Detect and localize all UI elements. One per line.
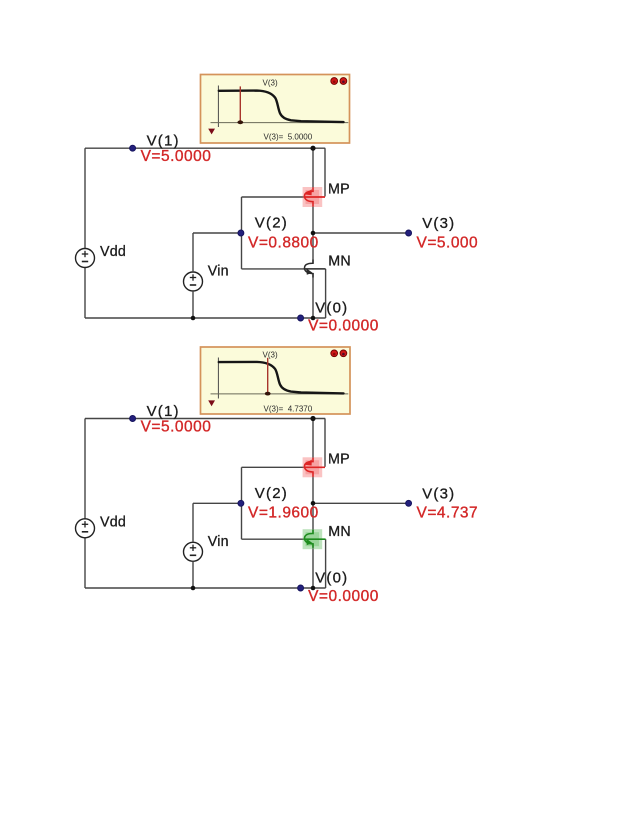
wire Vin to gate bus 1 [193, 232, 242, 234]
scope2 left marker triangle [208, 400, 215, 406]
svg-text:V(3): V(3) [263, 79, 278, 88]
svg-text:V(2): V(2) [255, 485, 288, 502]
node V(2) dot [238, 230, 244, 236]
svg-text:MN: MN [328, 254, 351, 270]
scope2 trace V(3) [219, 362, 344, 394]
node junction dot output 2 [311, 501, 316, 506]
wire MN gate 1 [242, 268, 305, 270]
scope1 vertical axis [217, 86, 219, 128]
svg-text:V(1): V(1) [147, 403, 180, 420]
wire MP source 2 [312, 419, 314, 459]
wire MP body vertical 2 [324, 419, 326, 467]
svg-text:V(3): V(3) [422, 485, 455, 502]
svg-text:V(3): V(3) [422, 215, 455, 232]
svg-text:Vin: Vin [208, 534, 229, 550]
svg-text:V=0.8800: V=0.8800 [248, 234, 319, 251]
node junction dot rail-MP 2 [310, 416, 315, 421]
wire output node 3 horizontal 2 [313, 502, 409, 504]
scope2 button 2 [340, 350, 347, 357]
node junction dot rail-MP 1 [310, 146, 315, 151]
wire top rail 1 [85, 147, 325, 149]
svg-text:Vdd: Vdd [100, 514, 126, 530]
wire gate bus vertical 2 [241, 467, 243, 539]
transistor MN 1 [304, 260, 326, 278]
wire MP drain 1 [312, 206, 314, 233]
transistor MN 2 [303, 529, 326, 549]
wire bottom rail 2 [85, 587, 326, 589]
svg-text:V=4.737: V=4.737 [417, 505, 479, 522]
wire MN drain 2 [312, 503, 314, 533]
svg-text:V(3)= 4.7370: V(3)= 4.7370 [264, 404, 313, 413]
transistor MP 1 [303, 187, 325, 207]
node junction dot MN-rail 1 [311, 316, 316, 321]
voltage source Vin 2 [184, 542, 203, 561]
svg-text:MP: MP [328, 452, 350, 468]
node V(3) dot circuit2 [406, 500, 412, 506]
wire MN source 2 [312, 543, 314, 588]
node junction dot Vin-rail 2 [191, 586, 196, 591]
svg-text:V(3)= 5.0000: V(3)= 5.0000 [264, 133, 313, 142]
svg-text:V=5.0000: V=5.0000 [141, 419, 212, 436]
scope2 cursor line [265, 358, 271, 396]
wire Vin upper lead 2 [192, 503, 194, 542]
svg-text:V=5.000: V=5.000 [417, 234, 479, 251]
scope2 horizontal axis [211, 393, 349, 395]
voltage source Vdd 1 [76, 249, 95, 268]
wire Vin upper lead 1 [192, 233, 194, 272]
node junction dot Vin-rail 1 [191, 316, 196, 321]
node V(0) dot circuit2 [298, 585, 304, 591]
svg-text:MN: MN [328, 524, 351, 540]
svg-text:V(1): V(1) [147, 133, 180, 150]
wire MP body vertical 1 [324, 148, 326, 196]
svg-text:V(3): V(3) [263, 351, 278, 360]
wire MN gate 2 [242, 538, 305, 540]
svg-text:V(0): V(0) [315, 299, 348, 316]
scope1 cursor line [237, 86, 243, 124]
wire left rail upper 2 [84, 419, 86, 519]
wire MP source 1 [312, 148, 314, 188]
node V(3) dot [406, 230, 412, 236]
node junction dot MN-rail 2 [311, 586, 316, 591]
wire bottom rail 1 [85, 317, 326, 319]
node V(1) dot circuit2 [130, 416, 136, 422]
voltage source Vin 1 [184, 272, 203, 291]
scope1 button 2 [340, 78, 347, 85]
voltage source Vdd 2 [76, 519, 95, 538]
svg-text:V(0): V(0) [315, 570, 348, 587]
svg-text:Vin: Vin [208, 264, 229, 280]
svg-text:V(2): V(2) [255, 215, 288, 232]
scope2 button 1 [331, 350, 338, 357]
scope1 button 1 [331, 78, 338, 85]
scope1 trace V(3) [219, 91, 344, 123]
wire MN body vertical 1 [325, 269, 327, 318]
oscilloscope inset 1 frame [201, 75, 350, 144]
svg-text:Vdd: Vdd [100, 244, 126, 260]
svg-text:V=0.0000: V=0.0000 [308, 588, 379, 605]
svg-text:V=5.0000: V=5.0000 [141, 148, 212, 165]
wire MN drain 1 [312, 233, 314, 263]
wire MN body vertical 2 [325, 539, 327, 588]
wire gate bus vertical 1 [241, 197, 243, 269]
wire left rail lower 1 [84, 268, 86, 319]
scope2 vertical axis [217, 358, 219, 399]
wire output node 3 horizontal 1 [313, 232, 409, 234]
wire MN source 1 [312, 273, 314, 318]
transistor MP 2 [303, 457, 325, 477]
node V(0) dot [298, 315, 304, 321]
wire MP gate 2 [242, 466, 305, 468]
scope1 horizontal axis [211, 122, 349, 124]
svg-text:V=1.9600: V=1.9600 [248, 505, 319, 522]
svg-text:V=0.0000: V=0.0000 [308, 318, 379, 335]
scope1 left marker triangle [208, 129, 215, 135]
svg-text:MP: MP [328, 181, 350, 197]
wire MP gate 1 [242, 196, 305, 198]
node V(2) dot circuit2 [238, 500, 244, 506]
wire MP drain 2 [312, 476, 314, 503]
wire left rail upper 1 [84, 148, 86, 248]
wire Vin lower lead 1 [192, 291, 194, 318]
node V(1) dot [130, 145, 136, 151]
node junction dot output 1 [311, 231, 316, 236]
wire Vin to gate bus 2 [193, 502, 242, 504]
wire top rail 2 [85, 418, 325, 420]
wire left rail lower 2 [84, 538, 86, 588]
oscilloscope inset 2 frame [201, 347, 351, 414]
wire Vin lower lead 2 [192, 561, 194, 588]
